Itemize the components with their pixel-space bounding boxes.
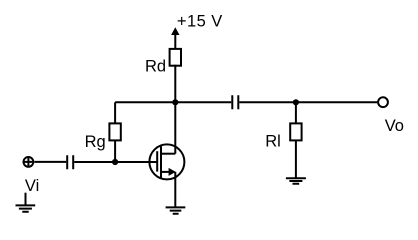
svg-text:Rg: Rg: [85, 133, 106, 151]
svg-text:Vi: Vi: [25, 177, 39, 195]
svg-text:+15 V: +15 V: [177, 13, 223, 31]
svg-text:Vo: Vo: [385, 117, 404, 135]
svg-text:Rd: Rd: [145, 58, 166, 76]
svg-text:Rl: Rl: [265, 133, 281, 151]
